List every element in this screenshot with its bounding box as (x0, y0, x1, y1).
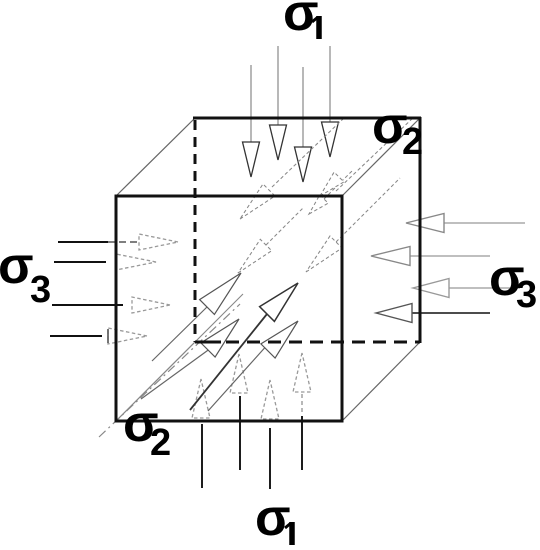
sigma1 bottom arrow 1 shaft (201, 424, 203, 488)
sigma3 left arrow 3 shaft (52, 304, 123, 306)
svg-text:3: 3 (516, 274, 537, 316)
sigma1 top arrow 2 head (270, 125, 287, 160)
sigma2 back arrow D2 shaft (324, 171, 352, 199)
svg-text:2: 2 (150, 422, 171, 464)
sigma2 front arrow S1 head (200, 273, 241, 314)
sigma3 left arrow 1 dashed shaft part (108, 241, 140, 243)
sigma2 back arrow D4 head (306, 236, 342, 272)
sigma3 right arrow 1 shaft (444, 222, 525, 224)
wire hidden back-bottom edge start (195, 341, 221, 344)
wire back right edge (419, 117, 422, 343)
sigma2 back arrow D5 shaft (266, 207, 304, 245)
sigma2 back arrow D3 long shaft near edge (336, 117, 414, 191)
sigma1 bottom arrow 3 head (261, 380, 279, 419)
sigma2 front arrow S2 shaft (dark) (190, 314, 267, 410)
sigma1 bottom arrow 4 dashed shaft part (301, 394, 303, 413)
sigma2 front arrow S3 head (201, 319, 239, 357)
sigma1 bottom arrow 4 head (293, 353, 311, 392)
sigma3 right arrow 2 shaft (409, 255, 490, 257)
sigma3 left arrow 4 head base bar (107, 329, 109, 343)
sigma2 back arrow D4 shaft (336, 178, 400, 242)
svg-text:σ: σ (0, 237, 34, 295)
sigma2 back arrow D2 head (309, 195, 328, 214)
sigma2 front arrow S1 shaft (152, 306, 208, 361)
wire front face square (116, 196, 342, 421)
sigma3 left arrow 3 head (132, 297, 170, 313)
sigma1 top arrow 1 head (243, 142, 260, 177)
sigma3 left arrow 2 shaft (54, 261, 106, 263)
sigma2 back arrow D1 head (240, 184, 275, 219)
sigma1 bottom arrow 2 shaft (239, 396, 241, 470)
sigma2 back arrow D1 shaft (272, 118, 344, 187)
sigma3 left arrow 4 head (108, 328, 147, 344)
sigma3 left arrow 4 shaft (50, 335, 102, 337)
sigma3 right arrow 4 shaft (412, 312, 490, 314)
sigma1 top arrow 2 shaft (277, 46, 279, 125)
sigma1 bottom arrow 2 head (230, 354, 248, 393)
sigma2 back arrow D3 head (320, 172, 344, 196)
sigma2 back arrow D5 head (238, 239, 272, 273)
sigma3 right arrow 1 head (406, 214, 444, 233)
sigma3 left arrow 1 head (139, 234, 178, 250)
sigma3 right arrow 2 head (371, 247, 410, 266)
sigma2 axis solid thin line (117, 294, 243, 420)
sigma1 bottom arrow 4 shaft (301, 416, 303, 470)
sigma2 front arrow S4 shaft (208, 343, 269, 411)
sigma3 left arrow 2 head base bar (115, 254, 117, 270)
sigma1 bottom arrow 3 shaft (269, 428, 271, 489)
svg-text:2: 2 (402, 121, 423, 163)
wire hidden back-left edge (194, 120, 197, 342)
svg-text:σ: σ (255, 489, 291, 547)
wire depth edge bottom-left hidden (117, 343, 194, 420)
sigma1 bottom arrow 1 head (192, 379, 210, 418)
wire depth edge bottom-right (342, 342, 420, 421)
wire depth edge top-left (116, 118, 195, 196)
sigma2 front arrow S2 head (dark) (260, 283, 298, 321)
sigma1 top arrow 3 shaft (302, 67, 304, 147)
wire depth edge top-right (342, 118, 420, 196)
sigma1 top arrow 4 head (322, 122, 339, 157)
svg-text:3: 3 (30, 269, 51, 311)
wire hidden back-bottom edge (226, 341, 420, 344)
sigma3 left arrow 1 shaft (58, 241, 108, 243)
wire back top edge (193, 117, 421, 120)
sigma3 left arrow 2 head (116, 254, 156, 270)
sigma3 right arrow 3 shaft (449, 287, 520, 289)
sigma3 right arrow 3 head (413, 279, 449, 298)
sigma1 top arrow 4 shaft (329, 46, 331, 122)
sigma2 front arrow S3 shaft (141, 348, 211, 399)
sigma2 axis dash-dot center line (99, 304, 240, 437)
sigma1 top arrow 1 shaft (250, 65, 252, 142)
sigma2 front arrow S4 head (261, 321, 298, 358)
sigma3 right arrow 4 head (376, 304, 412, 323)
sigma1 top arrow 3 head (295, 147, 312, 182)
